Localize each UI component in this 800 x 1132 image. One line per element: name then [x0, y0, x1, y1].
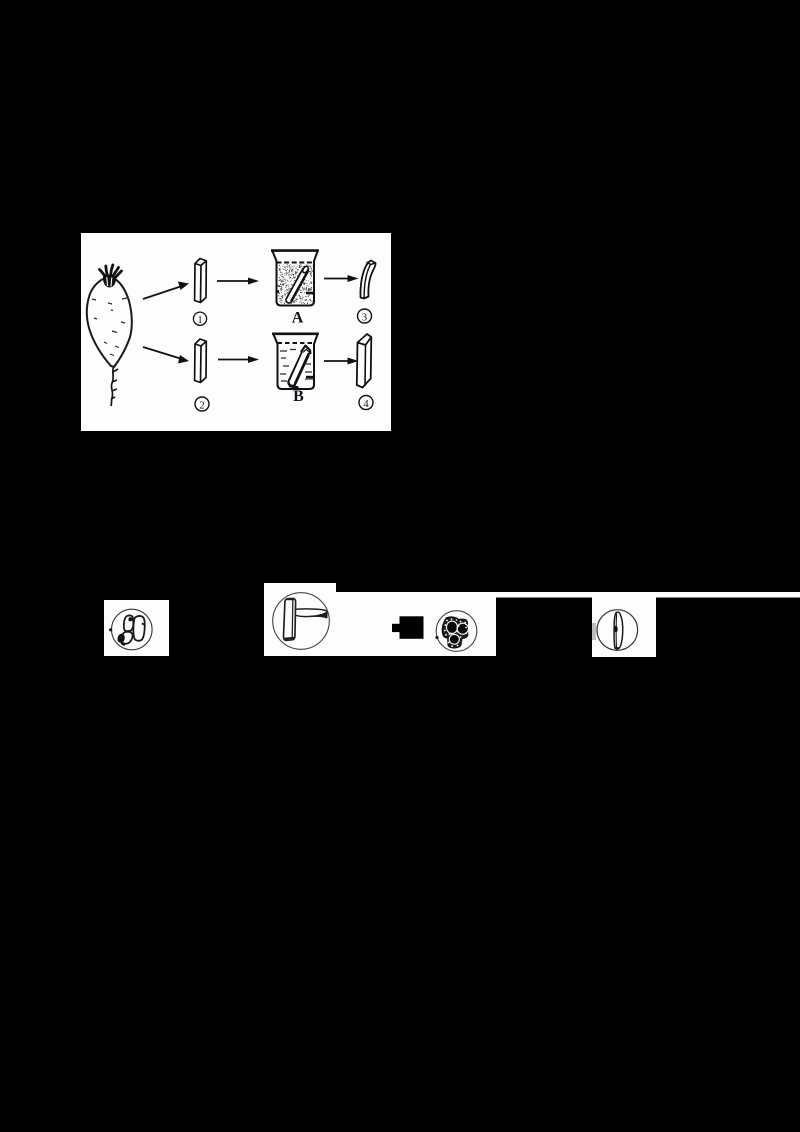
arrow strip2 to beaker B	[218, 356, 259, 363]
white strip across right	[336, 592, 800, 598]
flag cell: horizontal arm	[295, 609, 327, 618]
gray patch at left of box 4	[592, 623, 596, 640]
strip 4 (swollen prism)	[357, 334, 372, 388]
microscope box 4 (plasmolysed cell)	[592, 597, 656, 657]
svg-text:2: 2	[199, 401, 204, 412]
arrow strip1 to beaker A	[217, 278, 259, 285]
plus sign	[400, 616, 424, 639]
arrow B to strip4	[324, 358, 359, 365]
stained cells circle	[436, 611, 477, 652]
arrow radish to strip 1	[143, 282, 189, 300]
small dot left of stained circle	[435, 636, 438, 639]
flag arm dark tip	[311, 612, 328, 619]
radish leaf base (dark)	[103, 275, 116, 288]
radish body	[87, 279, 132, 367]
cell circle 4 (single cell)	[597, 610, 638, 651]
svg-text:B: B	[293, 388, 304, 405]
flag box top notch	[264, 583, 336, 593]
radish surface marks	[92, 298, 127, 356]
beaker A wall ticks	[276, 292, 314, 294]
flag cell: vertical cell	[283, 598, 295, 640]
label 3	[358, 309, 372, 324]
svg-text:4: 4	[363, 399, 369, 410]
strip in beaker A (shrunken, tilted)	[289, 265, 309, 300]
beaker A	[271, 250, 319, 306]
single elongated cell	[614, 612, 623, 649]
beaker A liquid level dashes	[277, 262, 315, 264]
strip 2 (fresh prism)	[195, 339, 207, 383]
cells circle 1	[112, 609, 153, 650]
label 1	[193, 312, 206, 326]
svg-text:A: A	[292, 309, 304, 326]
middle white area (flag + plus + stained cells)	[264, 592, 496, 656]
radish root squiggle	[111, 366, 118, 406]
radish leaf tuft	[100, 265, 122, 279]
svg-text:1: 1	[197, 315, 202, 326]
beaker B liquid level dashes	[278, 342, 315, 344]
arrow A to strip3	[324, 275, 359, 282]
beaker B bottom tick	[306, 376, 314, 378]
svg-text:3: 3	[362, 313, 367, 324]
cell circle 2 (flag cell)	[273, 593, 330, 650]
strip 1 (fresh prism)	[195, 259, 207, 303]
strip 3 (soft, bent)	[360, 261, 375, 299]
cells in circle 1	[121, 615, 145, 643]
label 4	[359, 396, 373, 411]
beaker B	[272, 333, 319, 389]
stained cell cluster	[442, 617, 468, 648]
arrow radish to strip 2	[143, 347, 189, 364]
beaker B water marks	[280, 350, 313, 382]
label 2	[195, 397, 209, 412]
beaker A solution (stippled sucrose dots)	[278, 264, 313, 304]
experiment diagram panel (white)	[81, 233, 391, 431]
microscope view box 1 (normal cells)	[104, 600, 169, 656]
dark shading lower-left cell	[118, 634, 125, 643]
strip in beaker B (swollen, tilted)	[290, 346, 310, 388]
